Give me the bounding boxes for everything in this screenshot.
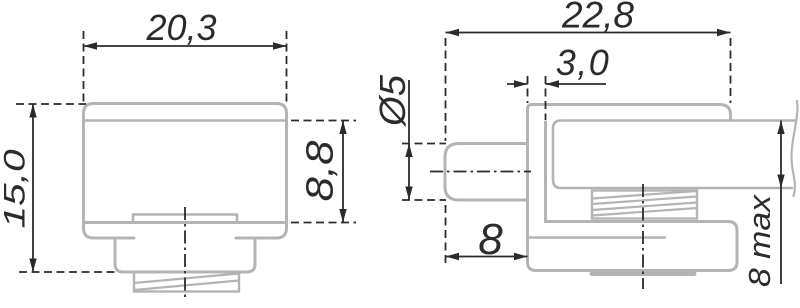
arrow 8max bottom — [777, 175, 784, 189]
arrow 8 left — [446, 253, 460, 260]
ext line 3,0 right — [545, 76, 547, 120]
svg-text:22,8: 22,8 — [561, 0, 634, 36]
ext line 15,0 bottom — [19, 271, 119, 273]
pin centerline — [430, 171, 531, 173]
step boss — [115, 238, 255, 272]
ext line 3,0 left — [527, 76, 529, 103]
dim line 8 — [446, 256, 528, 258]
ext line 8,8 top — [291, 120, 356, 122]
tab — [133, 215, 237, 223]
dim line 20,3 — [84, 45, 287, 47]
glass panel — [553, 121, 795, 189]
thread boss — [134, 272, 239, 292]
thread line 1 — [134, 274, 239, 284]
thread line 2 — [134, 281, 239, 291]
dim line diameter 5 — [408, 80, 410, 200]
screw thread right view — [592, 191, 697, 219]
arrow 8,8 top — [339, 121, 346, 135]
body bottom edge — [84, 221, 287, 224]
pin — [445, 144, 527, 201]
arrow diameter5 top — [405, 144, 412, 158]
arrow 15,0 bottom — [29, 259, 36, 273]
ext line 22,8 right — [730, 38, 732, 103]
clamp outline — [528, 105, 738, 271]
dim 3,0 right tail — [546, 83, 607, 85]
dim line 8,8 — [342, 121, 344, 223]
ext line 8,8 bottom — [291, 222, 356, 224]
arrow 8 right — [514, 253, 528, 260]
inner top edge — [84, 119, 287, 122]
svg-text:15,0: 15,0 — [0, 149, 31, 228]
thread hatch 4 — [592, 208, 697, 216]
ext line 15,0 top — [16, 103, 86, 105]
svg-text:Ø5: Ø5 — [372, 75, 413, 128]
svg-text:8,8: 8,8 — [298, 140, 341, 201]
arrow 22,8 left — [446, 29, 460, 36]
body outline — [84, 104, 287, 239]
glass break line — [791, 101, 797, 196]
svg-text:3,0: 3,0 — [556, 42, 611, 83]
ext line 8 — [445, 205, 447, 267]
arrow 8max top — [777, 121, 784, 135]
ext line diameter5 bottom — [402, 199, 446, 201]
dim line 8 max — [780, 121, 782, 285]
ext line 22,8 left — [445, 38, 447, 141]
arrow 22,8 right — [717, 29, 731, 36]
arrow 15,0 top — [29, 104, 36, 118]
arrow 3,0 right — [546, 80, 560, 87]
svg-text:20,3: 20,3 — [145, 7, 216, 48]
thread hatch 1 — [592, 191, 697, 199]
thread hatch 3 — [592, 203, 697, 211]
screw centerline — [642, 184, 644, 289]
svg-text:8 max: 8 max — [742, 193, 776, 287]
dim line 15,0 — [32, 104, 34, 272]
arrow 3,0 left — [514, 80, 528, 87]
ext line 20,3 left — [83, 31, 85, 103]
lower jaw slot line — [529, 236, 665, 239]
bottom pad — [592, 271, 694, 276]
dim 3,0 left tail — [507, 83, 528, 85]
dim line 22,8 — [446, 32, 731, 34]
thread hatch 2 — [592, 197, 697, 205]
arrow 20,3 right — [273, 42, 287, 49]
ext line 20,3 right — [286, 31, 288, 104]
arrow 8,8 bottom — [339, 209, 346, 223]
centerline left view — [184, 207, 186, 298]
arrow diameter5 bottom — [405, 187, 412, 201]
arrow 20,3 left — [84, 42, 98, 49]
ext line diameter5 top — [402, 143, 446, 145]
